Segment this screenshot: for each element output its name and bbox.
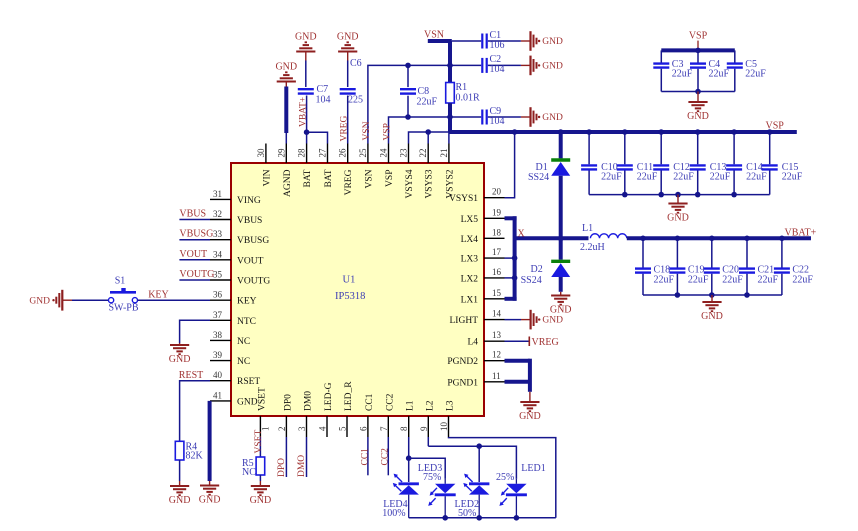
- svg-text:GND: GND: [687, 111, 709, 122]
- net label DPO pin2: [277, 437, 287, 477]
- junction C14 top: [731, 129, 737, 135]
- svg-text:D2: D2: [531, 264, 543, 275]
- junction C20 top: [709, 236, 715, 242]
- svg-text:GND: GND: [237, 397, 258, 407]
- svg-text:CC2: CC2: [381, 448, 391, 466]
- svg-text:VSP: VSP: [385, 170, 395, 187]
- ground GND below NTC: [169, 343, 191, 365]
- capacitor C9 104: [450, 106, 521, 127]
- resistor R4 82K: [175, 441, 203, 461]
- svg-text:22uF: 22uF: [601, 172, 622, 183]
- svg-text:GND: GND: [275, 61, 297, 72]
- svg-text:35: 35: [213, 270, 223, 280]
- capacitor C18 22uF: [635, 238, 675, 295]
- svg-text:22uF: 22uF: [417, 97, 438, 108]
- svg-text:L4: L4: [467, 338, 478, 348]
- svg-text:22uF: 22uF: [746, 172, 767, 183]
- capacitor C1 106: [452, 30, 521, 51]
- svg-text:10: 10: [439, 422, 449, 432]
- ground GND left of KEY: [29, 290, 72, 311]
- svg-text:R1: R1: [456, 82, 468, 93]
- wire pin21 VSYS2 to bus: [448, 132, 450, 144]
- svg-text:L3: L3: [446, 400, 456, 411]
- svg-text:104: 104: [490, 116, 505, 127]
- svg-text:29: 29: [276, 148, 286, 158]
- svg-text:S1: S1: [115, 276, 126, 287]
- svg-text:22uF: 22uF: [792, 275, 813, 286]
- svg-text:PGND1: PGND1: [447, 378, 478, 388]
- svg-text:REST: REST: [179, 370, 203, 381]
- switch S1 SW-PB: [109, 276, 139, 314]
- ground GND below PGND: [519, 392, 541, 422]
- ground GND right of C2: [521, 56, 563, 76]
- wire pin25 VSN to node: [362, 63, 453, 144]
- svg-text:LX1: LX1: [461, 295, 479, 305]
- svg-text:VREG: VREG: [344, 169, 354, 195]
- svg-text:BAT: BAT: [324, 169, 334, 187]
- wire R5 to GND: [259, 475, 261, 481]
- U1 bottom pin stubs: [260, 416, 448, 437]
- ground GND right of C1: [521, 31, 563, 51]
- wire C3-C5 top rail (thick): [661, 48, 735, 54]
- svg-text:5: 5: [338, 426, 348, 431]
- wire VSP bus (thick horizontal): [449, 121, 797, 133]
- svg-text:21: 21: [439, 149, 449, 158]
- junction C19 top: [675, 236, 681, 242]
- svg-text:20: 20: [492, 187, 502, 197]
- capacitor C6 225: [340, 58, 363, 106]
- svg-text:GND: GND: [199, 495, 221, 506]
- svg-text:16: 16: [492, 267, 502, 277]
- svg-text:26: 26: [338, 148, 348, 158]
- svg-text:36: 36: [213, 290, 223, 300]
- svg-text:104: 104: [316, 95, 331, 106]
- svg-text:VIN: VIN: [262, 169, 272, 186]
- svg-text:C8: C8: [418, 86, 430, 97]
- capacitor C8 22uF: [400, 63, 438, 120]
- node X bus to L1 (thick): [515, 229, 589, 240]
- svg-text:VBAT+: VBAT+: [299, 97, 309, 127]
- svg-text:32: 32: [213, 209, 222, 219]
- svg-text:22uF: 22uF: [654, 275, 675, 286]
- wire pin22 VSYS3 to bus: [425, 129, 431, 143]
- svg-text:22uF: 22uF: [758, 275, 779, 286]
- svg-text:VSET: VSET: [254, 430, 264, 454]
- node VBAT+ junction pins 27/28: [299, 97, 328, 144]
- svg-text:CC1: CC1: [360, 448, 370, 466]
- svg-text:38: 38: [213, 330, 223, 340]
- wire GND to switch S1: [72, 299, 109, 301]
- svg-text:VSN: VSN: [424, 30, 444, 41]
- svg-text:DPO: DPO: [277, 458, 287, 477]
- wire LED bottom rail: [409, 515, 556, 521]
- svg-text:CC1: CC1: [365, 393, 375, 411]
- resistor R5 NC: [242, 457, 265, 478]
- U1 bottom pin names: [257, 381, 455, 411]
- ground GND right of LIGHT: [521, 310, 563, 330]
- svg-text:LED-G: LED-G: [324, 382, 334, 411]
- svg-text:22uF: 22uF: [637, 172, 658, 183]
- wire pin40 RSET to R4: [179, 370, 210, 442]
- svg-text:CC2: CC2: [385, 393, 395, 411]
- svg-text:SS24: SS24: [521, 275, 542, 286]
- wire pin26 VREG up to C6: [340, 61, 350, 144]
- svg-text:VSET: VSET: [257, 387, 267, 411]
- svg-text:28: 28: [297, 148, 307, 158]
- wire R1 to VSP bus: [448, 103, 452, 132]
- svg-text:BAT: BAT: [303, 169, 313, 187]
- LED1 25%: [496, 463, 546, 518]
- svg-text:VREG: VREG: [340, 116, 350, 142]
- ground GND at pin 29: [275, 61, 297, 86]
- junction C10 top: [586, 129, 592, 135]
- U1 left pin numbers: [213, 189, 223, 401]
- svg-text:23: 23: [399, 148, 409, 158]
- diode D2 SS24: [521, 236, 571, 292]
- junction C21 top: [744, 236, 750, 242]
- U1 right pin stubs: [484, 198, 505, 382]
- svg-text:RSET: RSET: [237, 377, 260, 387]
- svg-text:2.2uH: 2.2uH: [580, 242, 605, 253]
- svg-text:X: X: [518, 229, 526, 240]
- wire pin20 VSYS1 to bus: [505, 129, 518, 198]
- U1 right pin numbers: [492, 187, 502, 381]
- net label CC1 pin6: [360, 437, 370, 475]
- svg-text:SS24: SS24: [528, 172, 549, 183]
- svg-text:IP5318: IP5318: [335, 291, 365, 302]
- svg-text:VOUT: VOUT: [179, 249, 207, 260]
- svg-text:3: 3: [297, 426, 307, 431]
- svg-text:6: 6: [358, 426, 368, 431]
- power port VREG at pin13 L4: [505, 337, 559, 349]
- power port VSP above C3-C5: [689, 31, 708, 51]
- svg-text:22uF: 22uF: [673, 172, 694, 183]
- svg-text:AGND: AGND: [283, 169, 293, 197]
- IC U1 IP5318 body: [231, 163, 484, 416]
- svg-text:GND: GND: [667, 213, 689, 224]
- svg-text:GND: GND: [337, 31, 359, 42]
- net label VBUSG pin33: [179, 229, 213, 240]
- wire C3-C5 bottom rail: [661, 89, 735, 95]
- svg-text:LX4: LX4: [461, 235, 479, 245]
- resistor R1 0.01R: [446, 82, 480, 104]
- svg-text:VING: VING: [237, 196, 261, 206]
- svg-text:34: 34: [213, 249, 223, 259]
- svg-text:VBAT+: VBAT+: [785, 228, 817, 239]
- capacitor C7 104: [298, 84, 331, 106]
- ground GND below C18-C22: [701, 295, 723, 322]
- svg-text:GND: GND: [542, 61, 563, 71]
- svg-text:VSP: VSP: [383, 123, 393, 140]
- U1 top pin names: [262, 169, 455, 198]
- svg-text:18: 18: [492, 227, 502, 237]
- capacitor C14 22uF: [726, 132, 767, 195]
- svg-text:25: 25: [358, 148, 368, 158]
- svg-text:225: 225: [348, 95, 363, 106]
- svg-text:22uF: 22uF: [782, 172, 803, 183]
- svg-text:DMO: DMO: [297, 455, 307, 477]
- svg-text:13: 13: [492, 330, 502, 340]
- svg-text:DP0: DP0: [283, 394, 293, 411]
- U1 top pin numbers: [256, 148, 449, 158]
- wire C10-C15 bottom rail: [589, 192, 770, 198]
- U1 left pin names: [237, 196, 270, 408]
- LED4 100%: [382, 474, 419, 520]
- svg-text:4: 4: [318, 426, 328, 431]
- svg-text:22: 22: [418, 149, 428, 158]
- ground GND below C3-C5: [687, 92, 709, 123]
- wire pin28 BAT up to C7: [305, 61, 308, 144]
- capacitor C3 22uF: [653, 50, 693, 91]
- svg-text:37: 37: [213, 310, 223, 320]
- capacitor C20 22uF: [704, 238, 744, 295]
- svg-text:VBUSG: VBUSG: [237, 236, 269, 246]
- svg-text:100%: 100%: [382, 508, 405, 519]
- svg-text:40: 40: [213, 370, 223, 380]
- svg-text:11: 11: [492, 371, 501, 381]
- svg-text:GND: GND: [169, 354, 191, 365]
- svg-text:39: 39: [213, 350, 223, 360]
- svg-text:L1: L1: [582, 223, 593, 234]
- svg-text:8: 8: [399, 426, 409, 431]
- svg-text:GND: GND: [295, 31, 317, 42]
- net label CC2 pin7: [381, 437, 391, 475]
- junction C11 top: [622, 129, 628, 135]
- ground GND below C10-C15: [667, 195, 689, 224]
- svg-text:22uF: 22uF: [688, 275, 709, 286]
- svg-text:LED_R: LED_R: [344, 381, 354, 411]
- LED2 50%: [455, 474, 490, 520]
- svg-text:L2: L2: [425, 400, 435, 411]
- svg-text:PGND2: PGND2: [447, 357, 478, 367]
- svg-text:KEY: KEY: [148, 290, 169, 301]
- ground GND below D2: [550, 292, 572, 316]
- svg-text:17: 17: [492, 247, 502, 257]
- svg-text:GND: GND: [29, 296, 50, 306]
- svg-text:LX3: LX3: [461, 255, 479, 265]
- wire pin9 L2 to LED1/LED2: [428, 437, 516, 482]
- svg-text:VSN: VSN: [364, 169, 374, 188]
- svg-text:LIGHT: LIGHT: [450, 316, 479, 326]
- svg-text:GND: GND: [542, 113, 563, 123]
- capacitor C15 22uF: [762, 132, 803, 195]
- capacitor C2 104: [450, 54, 521, 75]
- svg-text:VREG: VREG: [532, 337, 559, 348]
- svg-text:DM0: DM0: [304, 391, 314, 411]
- svg-text:24: 24: [379, 148, 389, 158]
- svg-text:VSP: VSP: [689, 31, 708, 42]
- svg-text:VSN: VSN: [362, 121, 372, 140]
- wire pin8 L1 to LED3/LED4: [406, 437, 445, 482]
- wire pin29 AGND to GND (thick): [284, 87, 288, 144]
- svg-text:25%: 25%: [496, 472, 514, 483]
- svg-text:22uF: 22uF: [672, 69, 693, 80]
- svg-text:NTC: NTC: [237, 317, 256, 327]
- svg-text:82K: 82K: [186, 451, 204, 462]
- svg-text:33: 33: [213, 229, 223, 239]
- net label VOUTG pin35: [179, 269, 214, 280]
- capacitor C13 22uF: [690, 132, 731, 195]
- ground GND below R4: [169, 481, 191, 506]
- svg-text:NC: NC: [237, 357, 250, 367]
- svg-text:KEY: KEY: [237, 297, 257, 307]
- svg-text:L1: L1: [406, 400, 416, 411]
- svg-text:VSYS4: VSYS4: [405, 169, 415, 198]
- svg-text:LED1: LED1: [521, 463, 545, 474]
- U1 right pin names: [447, 194, 478, 388]
- inductor L1 2.2uH: [580, 223, 627, 253]
- svg-text:GND: GND: [169, 495, 191, 506]
- svg-text:GND: GND: [701, 311, 723, 322]
- svg-text:22uF: 22uF: [745, 69, 766, 80]
- capacitor C19 22uF: [669, 238, 709, 295]
- svg-text:VSYS3: VSYS3: [425, 169, 435, 198]
- svg-text:2: 2: [277, 427, 287, 432]
- U1 left pin stubs: [210, 199, 231, 401]
- svg-text:NC: NC: [242, 467, 256, 478]
- svg-text:15: 15: [492, 288, 502, 298]
- svg-text:GND: GND: [542, 316, 563, 326]
- capacitor C11 22uF: [617, 132, 658, 195]
- svg-text:VBUS: VBUS: [179, 209, 206, 220]
- svg-text:104: 104: [490, 64, 505, 75]
- wire C18-C22 bottom rail: [643, 292, 782, 298]
- svg-text:GND: GND: [519, 411, 541, 422]
- ground GND below R5: [250, 481, 272, 506]
- capacitor C12 22uF: [653, 132, 694, 195]
- LED3 75%: [418, 463, 456, 518]
- wire VBAT+ bus (thick): [627, 228, 817, 239]
- net label VOUT pin34: [179, 249, 210, 260]
- svg-text:NC: NC: [237, 337, 250, 347]
- svg-text:30: 30: [256, 148, 266, 158]
- svg-text:9: 9: [419, 426, 429, 431]
- svg-text:VSYS1: VSYS1: [449, 194, 478, 204]
- capacitor C22 22uF: [774, 238, 814, 295]
- svg-text:0.01R: 0.01R: [456, 93, 481, 104]
- svg-text:75%: 75%: [423, 472, 441, 483]
- svg-text:106: 106: [490, 40, 505, 51]
- svg-text:GND: GND: [550, 305, 572, 316]
- ground GND above C6: [337, 31, 359, 60]
- capacitor C21 22uF: [739, 238, 779, 295]
- ground GND above C7: [295, 31, 317, 60]
- svg-text:22uF: 22uF: [709, 69, 730, 80]
- wire pin10 L3 to LED cathode rail: [449, 437, 556, 518]
- svg-text:27: 27: [318, 148, 328, 158]
- wire switch to pin36 KEY: [138, 290, 211, 301]
- svg-text:VOUTG: VOUTG: [237, 277, 270, 287]
- svg-text:VBUS: VBUS: [237, 216, 262, 226]
- ground GND below pin41: [199, 481, 221, 506]
- wire pin23 VSYS4 to bus: [409, 132, 450, 144]
- wire R4 to GND: [179, 460, 181, 481]
- U1 top pin stubs: [266, 144, 449, 164]
- svg-text:22uF: 22uF: [722, 275, 743, 286]
- svg-text:LX5: LX5: [461, 215, 479, 225]
- svg-text:SW-PB: SW-PB: [109, 303, 139, 314]
- wire pin14 LIGHT to GND: [505, 319, 522, 321]
- wire pin41 GND (thick): [208, 401, 212, 481]
- svg-text:19: 19: [492, 207, 502, 217]
- svg-text:7: 7: [379, 426, 389, 431]
- svg-text:U1: U1: [343, 275, 356, 286]
- junction C22 top: [779, 236, 785, 242]
- svg-text:22uF: 22uF: [710, 172, 731, 183]
- svg-text:GND: GND: [250, 495, 272, 506]
- wire pin37 NTC to GND: [180, 320, 210, 343]
- capacitor C5 22uF: [727, 50, 767, 91]
- svg-text:LX2: LX2: [461, 274, 479, 284]
- svg-text:VBUSG: VBUSG: [179, 229, 213, 240]
- capacitor C10 22uF: [581, 132, 622, 195]
- ground GND right of C9: [521, 107, 563, 127]
- net label DMO pin3: [297, 437, 307, 477]
- node VSN label and stub: [424, 30, 452, 42]
- svg-text:VOUTG: VOUTG: [179, 269, 214, 280]
- svg-text:VOUT: VOUT: [237, 256, 264, 266]
- svg-text:41: 41: [213, 390, 222, 400]
- svg-text:GND: GND: [542, 37, 563, 47]
- svg-text:14: 14: [492, 309, 502, 319]
- net label VBUS pin32: [179, 209, 210, 220]
- svg-text:C7: C7: [317, 84, 329, 95]
- capacitor C4 22uF: [690, 50, 730, 91]
- wire VSN vertical bus to R1: [448, 41, 452, 83]
- svg-text:31: 31: [213, 189, 222, 199]
- wire PGND1/PGND2 to GND (thick): [505, 359, 530, 392]
- junction C12 top: [658, 129, 664, 135]
- junction C15 top: [767, 129, 773, 135]
- svg-text:12: 12: [492, 350, 501, 360]
- junction C13 top: [695, 129, 701, 135]
- wire pin24 VSP to node: [383, 114, 453, 143]
- junction C18 top: [640, 236, 646, 242]
- svg-text:C6: C6: [350, 58, 362, 69]
- wire pin1 VSET to R5: [254, 430, 264, 457]
- diode D1 SS24: [528, 129, 570, 238]
- wire LX bus vertical (pins 15-19): [505, 216, 518, 300]
- U1 bottom pin numbers: [260, 422, 449, 432]
